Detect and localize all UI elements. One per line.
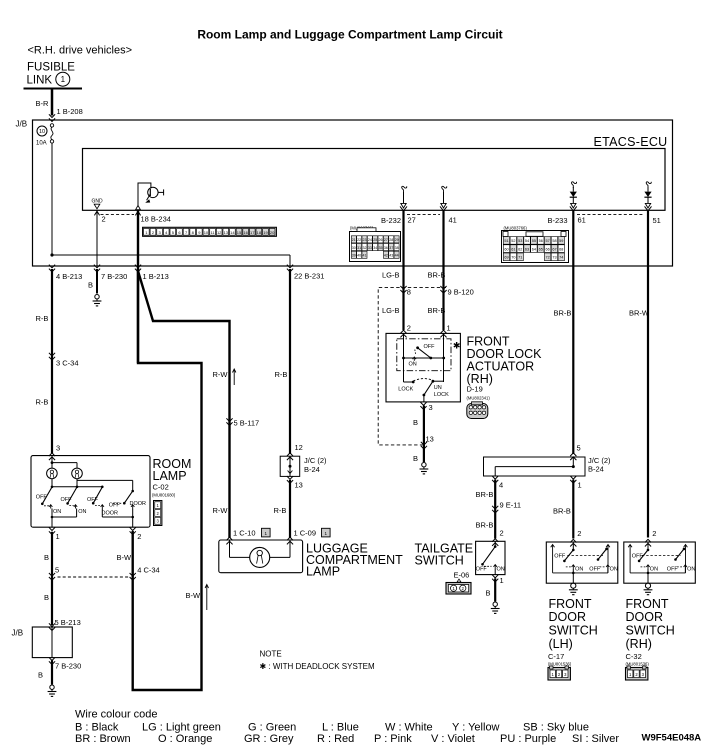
svg-text:LAMP: LAMP bbox=[153, 469, 187, 483]
svg-text:J/B: J/B bbox=[12, 629, 24, 638]
svg-text:B: B bbox=[88, 281, 93, 290]
wire ECU pin18 output bbox=[137, 210, 139, 363]
svg-text:C-32: C-32 bbox=[626, 652, 642, 661]
svg-text:2: 2 bbox=[102, 215, 106, 224]
svg-text:Room Lamp and Luggage Compartm: Room Lamp and Luggage Compartment Lamp C… bbox=[197, 28, 502, 42]
svg-text:51: 51 bbox=[504, 239, 508, 243]
svg-text:22: 22 bbox=[357, 238, 361, 242]
svg-text:GR : Grey: GR : Grey bbox=[244, 733, 294, 745]
svg-text:B: B bbox=[44, 593, 49, 602]
svg-text:OFF: OFF bbox=[667, 567, 679, 573]
tailgate switch pin 1 exit bbox=[492, 575, 498, 582]
svg-text:1 C-09: 1 C-09 bbox=[294, 529, 317, 538]
svg-text:BR-B: BR-B bbox=[476, 490, 494, 499]
luggage compartment lamp box bbox=[219, 540, 303, 573]
svg-text:2: 2 bbox=[652, 529, 656, 538]
svg-text:<R.H. drive vehicles>: <R.H. drive vehicles> bbox=[28, 45, 133, 57]
svg-text:BR-B: BR-B bbox=[428, 306, 446, 315]
front door switch (RH) internals bbox=[629, 545, 631, 573]
svg-text:B-W: B-W bbox=[117, 553, 133, 562]
room lamp switch 1 arm bbox=[42, 487, 52, 504]
svg-text:GND: GND bbox=[91, 198, 103, 204]
svg-text:LG-B: LG-B bbox=[382, 306, 400, 315]
svg-text:B: B bbox=[44, 553, 49, 562]
room lamp bus wiring bbox=[51, 479, 53, 487]
svg-text:68: 68 bbox=[559, 247, 563, 251]
svg-text:O : Orange: O : Orange bbox=[158, 733, 212, 745]
svg-text:SWITCH: SWITCH bbox=[415, 554, 464, 568]
svg-text:25: 25 bbox=[373, 238, 377, 242]
svg-text:13: 13 bbox=[224, 230, 229, 235]
room lamp internal feed wiring bbox=[51, 456, 53, 469]
svg-text:SWITCH: SWITCH bbox=[626, 624, 675, 638]
svg-text:64: 64 bbox=[532, 247, 536, 251]
svg-text:62: 62 bbox=[518, 247, 522, 251]
fuse 10 (10A) bbox=[37, 126, 47, 136]
room lamp switch 3 DOOR contact bbox=[95, 504, 101, 506]
tailgate switch internals bbox=[494, 541, 496, 546]
pin fork 61 bbox=[570, 206, 577, 210]
svg-text:52: 52 bbox=[511, 239, 515, 243]
svg-text:18 B-234: 18 B-234 bbox=[141, 215, 171, 224]
svg-text:8: 8 bbox=[407, 288, 411, 297]
svg-text:14: 14 bbox=[230, 230, 235, 235]
svg-text:R-W: R-W bbox=[213, 506, 229, 515]
ground room lamp circuit bbox=[50, 685, 54, 689]
exit connector 4 B-213 bbox=[49, 265, 55, 272]
svg-text:(LH): (LH) bbox=[549, 637, 573, 651]
svg-text:ON: ON bbox=[53, 509, 61, 515]
svg-text:7 B-230: 7 B-230 bbox=[55, 662, 81, 671]
svg-text:1: 1 bbox=[500, 576, 504, 585]
svg-text:44: 44 bbox=[395, 254, 399, 258]
svg-text:B : Black: B : Black bbox=[75, 722, 119, 734]
svg-text:OFF: OFF bbox=[36, 495, 48, 501]
svg-text:V : Violet: V : Violet bbox=[431, 733, 475, 745]
svg-text:DOOR: DOOR bbox=[626, 610, 664, 624]
svg-text:37: 37 bbox=[389, 246, 393, 250]
svg-text:G : Green: G : Green bbox=[248, 722, 296, 734]
front door switch (LH) pin 2 entry bbox=[570, 539, 576, 546]
svg-text:OFF: OFF bbox=[476, 567, 488, 573]
junction connector J/C(2) B-24 right bbox=[570, 453, 576, 460]
room lamp bulb 2 bbox=[72, 468, 83, 479]
room lamp box bbox=[31, 456, 150, 528]
wire pin27 LG-B down to actuator bbox=[402, 211, 404, 330]
dashed connector line pins 2-18 bbox=[101, 214, 135, 216]
svg-text:B-24: B-24 bbox=[304, 465, 320, 474]
junction dot power feed bbox=[50, 253, 53, 256]
svg-text:R-B: R-B bbox=[36, 398, 49, 407]
wire B to body ground (pin7) bbox=[96, 269, 98, 294]
junction block J/B lower box bbox=[49, 623, 55, 630]
svg-text:2: 2 bbox=[137, 532, 141, 541]
svg-text:R-B: R-B bbox=[274, 506, 287, 515]
room lamp switch 4 DOOR contact bbox=[132, 505, 134, 509]
room lamp bulb 1 bbox=[47, 468, 58, 479]
ground for 7 B-230 bbox=[95, 295, 99, 299]
svg-text:2: 2 bbox=[407, 324, 411, 333]
actuator deadlock dash-dot box bbox=[397, 339, 451, 371]
svg-text:60: 60 bbox=[504, 247, 508, 251]
svg-text:R-B: R-B bbox=[275, 370, 288, 379]
svg-text:FRONT: FRONT bbox=[626, 597, 669, 611]
svg-text:BR-B: BR-B bbox=[554, 309, 572, 318]
connector diagram D-19 oval bbox=[467, 404, 488, 419]
svg-text:10A: 10A bbox=[36, 141, 47, 147]
diode D2 above pin 51 bbox=[646, 182, 651, 188]
tailgate switch box bbox=[476, 541, 505, 574]
svg-text:23: 23 bbox=[363, 238, 367, 242]
wire R-B from J/C to luggage lamp bbox=[289, 480, 291, 538]
wire B from actuator to ground bbox=[423, 406, 425, 463]
luggage lamp internal wiring bbox=[229, 540, 231, 557]
svg-text:LOCK: LOCK bbox=[434, 392, 449, 398]
svg-text:(RH): (RH) bbox=[626, 637, 652, 651]
svg-text:5 B-213: 5 B-213 bbox=[55, 618, 81, 627]
svg-text:OFF: OFF bbox=[424, 344, 436, 350]
svg-text:73: 73 bbox=[552, 256, 556, 260]
actuator pin entries bbox=[400, 330, 406, 337]
svg-text:16: 16 bbox=[243, 230, 248, 235]
svg-text:P : Pink: P : Pink bbox=[374, 733, 412, 745]
svg-text:67: 67 bbox=[552, 247, 556, 251]
svg-text:L : Blue: L : Blue bbox=[322, 722, 359, 734]
svg-text:55: 55 bbox=[532, 239, 536, 243]
svg-text:DOOR: DOOR bbox=[102, 510, 119, 516]
svg-text:5: 5 bbox=[55, 566, 59, 575]
svg-text:FRONT: FRONT bbox=[549, 597, 592, 611]
svg-text:R : Red: R : Red bbox=[317, 733, 354, 745]
wire B-R main feed bbox=[51, 89, 54, 116]
svg-text:LOCK: LOCK bbox=[398, 386, 413, 392]
svg-text:DOOR: DOOR bbox=[549, 610, 587, 624]
svg-text:15: 15 bbox=[237, 230, 242, 235]
diode D1 above pin 61 bbox=[572, 182, 577, 188]
svg-text:ON: ON bbox=[610, 567, 618, 573]
pin fork 27 bbox=[400, 206, 407, 210]
front door switch (RH) box bbox=[624, 542, 696, 583]
svg-text:BR-W: BR-W bbox=[629, 309, 650, 318]
svg-text:72: 72 bbox=[545, 256, 549, 260]
wire B from room lamp pin 1 bbox=[51, 532, 53, 625]
svg-text:34: 34 bbox=[373, 246, 377, 250]
svg-text:D-19: D-19 bbox=[467, 385, 483, 394]
svg-text:W : White: W : White bbox=[385, 722, 433, 734]
svg-text:61: 61 bbox=[511, 247, 515, 251]
dashed door harness boundary bbox=[378, 288, 446, 445]
room lamp switch 1 ON contact bbox=[44, 505, 49, 507]
junction block J/B outer box bbox=[33, 120, 673, 266]
actuator internal switch OFF/ON bbox=[403, 333, 405, 358]
svg-text:1 C-10: 1 C-10 bbox=[233, 529, 256, 538]
actuator internal LOCK/UNLOCK switch bbox=[443, 333, 445, 382]
svg-text:57: 57 bbox=[545, 239, 549, 243]
svg-text:1: 1 bbox=[578, 481, 582, 490]
svg-text:22 B-231: 22 B-231 bbox=[294, 272, 324, 281]
svg-text:10: 10 bbox=[39, 129, 45, 135]
connector diagram C-17 bbox=[548, 668, 570, 681]
svg-text:J/B: J/B bbox=[16, 120, 28, 129]
svg-text:C-17: C-17 bbox=[548, 652, 564, 661]
svg-text:65: 65 bbox=[539, 247, 543, 251]
svg-text:ETACS-ECU: ETACS-ECU bbox=[594, 135, 668, 149]
svg-text:9 E-11: 9 E-11 bbox=[500, 501, 522, 510]
svg-text:3: 3 bbox=[429, 403, 433, 412]
connector diagram C-32 bbox=[626, 668, 648, 681]
svg-text:4 B-213: 4 B-213 bbox=[56, 272, 82, 281]
svg-text:ON: ON bbox=[575, 567, 583, 573]
pin fork 51 bbox=[645, 206, 652, 210]
pin 18 triangle on ECU edge bbox=[136, 205, 141, 209]
ground actuator bbox=[422, 463, 426, 467]
svg-text:5: 5 bbox=[577, 444, 581, 453]
svg-text:R-W: R-W bbox=[213, 370, 229, 379]
svg-text:✱ : WITH DEADLOCK SYSTEM: ✱ : WITH DEADLOCK SYSTEM bbox=[260, 662, 375, 671]
svg-text:4 C-34: 4 C-34 bbox=[137, 566, 160, 575]
svg-text:54: 54 bbox=[525, 239, 529, 243]
svg-text:17: 17 bbox=[250, 230, 255, 235]
svg-text:30: 30 bbox=[352, 246, 356, 250]
pin fork 41 bbox=[440, 206, 447, 210]
svg-text:63: 63 bbox=[525, 247, 529, 251]
svg-text:41: 41 bbox=[363, 254, 367, 258]
svg-text:ON: ON bbox=[497, 567, 505, 573]
svg-text:27: 27 bbox=[408, 216, 416, 225]
connector 1 B-208 bbox=[49, 114, 55, 121]
svg-text:40: 40 bbox=[357, 254, 361, 258]
wire power feed horizontal to pin22 bbox=[52, 254, 290, 256]
ETACS-ECU inner box bbox=[83, 149, 666, 211]
svg-text:1 B-213: 1 B-213 bbox=[143, 272, 169, 281]
svg-text:PU : Purple: PU : Purple bbox=[500, 733, 556, 745]
exit connector 22 B-231 bbox=[287, 265, 293, 272]
svg-text:32: 32 bbox=[363, 246, 367, 250]
room lamp bottom wiring bbox=[51, 509, 53, 518]
svg-text:B-24: B-24 bbox=[588, 465, 604, 474]
svg-text:2: 2 bbox=[500, 529, 504, 538]
wire R-B from 4 B-213 to room lamp pin 3 bbox=[51, 269, 53, 453]
svg-text:BR-B: BR-B bbox=[476, 521, 494, 530]
svg-text:12: 12 bbox=[217, 230, 222, 235]
svg-text:7 B-230: 7 B-230 bbox=[101, 272, 127, 281]
svg-text:W9F54E048A: W9F54E048A bbox=[642, 733, 701, 744]
svg-text:OFF: OFF bbox=[61, 497, 73, 503]
internal arrow symbol above pin 41 bbox=[442, 186, 447, 192]
svg-text:LG : Light green: LG : Light green bbox=[142, 722, 221, 734]
svg-text:39: 39 bbox=[352, 254, 356, 258]
svg-text:ON: ON bbox=[687, 567, 695, 573]
wire bold from 1 B-213 down right and down to room lamp pin2 loop bbox=[133, 269, 202, 690]
svg-text:1: 1 bbox=[447, 324, 451, 333]
wire fuse output down to junction bbox=[51, 143, 53, 255]
svg-text:Wire colour code: Wire colour code bbox=[75, 709, 158, 721]
svg-text:ON: ON bbox=[78, 509, 86, 515]
wire pin51 BR-W down to door switch RH bbox=[647, 211, 649, 538]
svg-text:74: 74 bbox=[559, 256, 563, 260]
svg-text:B: B bbox=[413, 418, 418, 427]
svg-text:18: 18 bbox=[257, 230, 262, 235]
svg-text:19: 19 bbox=[263, 230, 268, 235]
svg-text:ON: ON bbox=[409, 361, 417, 367]
svg-text:UN: UN bbox=[434, 385, 442, 391]
svg-text:OFF: OFF bbox=[589, 567, 601, 573]
transistor Q1 in ECU bbox=[138, 183, 151, 206]
svg-text:12: 12 bbox=[295, 443, 303, 452]
svg-text:BR : Brown: BR : Brown bbox=[75, 733, 131, 745]
svg-text:51: 51 bbox=[653, 216, 661, 225]
dashed connector line pins 61-51 bbox=[577, 214, 645, 216]
svg-text:(MU802341): (MU802341) bbox=[467, 396, 491, 401]
svg-text:10: 10 bbox=[204, 230, 209, 235]
front door switch (LH) box bbox=[546, 542, 618, 583]
wire R-B from 22 B-231 to J/C(2) bbox=[289, 269, 291, 454]
svg-text:LG-B: LG-B bbox=[382, 271, 400, 280]
internal arrow symbol above pin 27 bbox=[402, 186, 407, 192]
svg-text:SWITCH: SWITCH bbox=[549, 624, 598, 638]
svg-text:58: 58 bbox=[552, 239, 556, 243]
front door switch (LH) internals bbox=[552, 545, 554, 573]
connector 7 B-230 bbox=[49, 657, 55, 664]
svg-text:53: 53 bbox=[518, 239, 522, 243]
luggage lamp bulb bbox=[250, 547, 270, 567]
svg-text:(MU803766): (MU803766) bbox=[504, 226, 528, 231]
svg-text:27: 27 bbox=[384, 238, 388, 242]
wire ECU pin2 ground bbox=[96, 210, 98, 266]
dashed connector line pins 27-41 bbox=[407, 214, 440, 216]
room lamp pin exits 1 and 2 bbox=[49, 527, 55, 534]
svg-text:C-02: C-02 bbox=[153, 483, 169, 492]
svg-text:4: 4 bbox=[499, 481, 503, 490]
svg-text:FUSIBLE: FUSIBLE bbox=[27, 62, 75, 74]
svg-text:33: 33 bbox=[368, 246, 372, 250]
svg-text:Y : Yellow: Y : Yellow bbox=[452, 722, 500, 734]
exit connector 7 B-230 bbox=[94, 265, 100, 272]
svg-text:OFF: OFF bbox=[632, 554, 644, 560]
connector 8 on LG-B bbox=[400, 286, 406, 293]
svg-text:38: 38 bbox=[395, 246, 399, 250]
tailgate switch pin 2 entry bbox=[492, 539, 498, 546]
svg-text:5 B-117: 5 B-117 bbox=[234, 419, 260, 428]
svg-text:ON: ON bbox=[650, 567, 658, 573]
svg-text:OFF: OFF bbox=[554, 554, 566, 560]
connector diagram C-02 bbox=[154, 501, 162, 526]
svg-text:3 C-34: 3 C-34 bbox=[56, 359, 79, 368]
svg-text:59: 59 bbox=[559, 239, 563, 243]
connector 9 E-11 bbox=[492, 506, 498, 513]
svg-text:B: B bbox=[38, 671, 43, 680]
svg-text:13: 13 bbox=[295, 481, 303, 490]
svg-text:LINK: LINK bbox=[27, 75, 53, 87]
svg-text:61: 61 bbox=[578, 216, 586, 225]
room lamp pin 3 entry bbox=[49, 453, 55, 460]
svg-text:21: 21 bbox=[352, 238, 356, 242]
svg-text:56: 56 bbox=[539, 239, 543, 243]
svg-text:20: 20 bbox=[270, 230, 275, 235]
svg-text:OFF: OFF bbox=[87, 497, 99, 503]
svg-text:31: 31 bbox=[357, 246, 361, 250]
svg-text:28: 28 bbox=[389, 238, 393, 242]
svg-text:DOOR: DOOR bbox=[130, 501, 147, 507]
svg-text:24: 24 bbox=[368, 238, 372, 242]
svg-text:35: 35 bbox=[379, 246, 383, 250]
svg-text:1: 1 bbox=[56, 532, 60, 541]
svg-text:B-233: B-233 bbox=[548, 216, 568, 225]
fusible link bus bar bbox=[24, 88, 83, 90]
svg-text:42: 42 bbox=[384, 254, 388, 258]
svg-text:36: 36 bbox=[384, 246, 388, 250]
connector 5 B-117 bbox=[226, 418, 232, 425]
svg-text:SI : Silver: SI : Silver bbox=[572, 733, 619, 745]
connector 3 C-34 bbox=[49, 353, 55, 360]
svg-text:SB : Sky blue: SB : Sky blue bbox=[523, 722, 589, 734]
room lamp switch 2 arm bbox=[68, 487, 77, 503]
svg-text:J/C (2): J/C (2) bbox=[304, 456, 327, 465]
svg-text:2: 2 bbox=[577, 529, 581, 538]
connector diagram E-06 bbox=[446, 583, 471, 595]
svg-text:9 B-120: 9 B-120 bbox=[448, 288, 474, 297]
svg-text:E-06: E-06 bbox=[454, 571, 470, 580]
wire pin41 BR-B down to actuator bbox=[442, 211, 444, 330]
room lamp switch 3 arm bbox=[93, 487, 102, 503]
connector diagram B-234 pin row bbox=[143, 227, 277, 236]
wire B to ground bbox=[51, 661, 53, 685]
direction arrow up R-W bbox=[233, 370, 235, 386]
svg-text:3: 3 bbox=[56, 444, 60, 453]
exit connector 1 B-213 bbox=[135, 265, 141, 272]
svg-text:70: 70 bbox=[511, 256, 515, 260]
svg-text:B-W: B-W bbox=[186, 591, 202, 600]
svg-text:✱: ✱ bbox=[453, 341, 461, 351]
svg-text:LAMP: LAMP bbox=[306, 565, 340, 579]
svg-text:R-B: R-B bbox=[36, 314, 49, 323]
fusible link number 1 circle bbox=[56, 72, 70, 86]
wire pin61 BR-B down to J/C bbox=[572, 211, 574, 454]
svg-text:43: 43 bbox=[389, 254, 393, 258]
luggage lamp pin entries bbox=[226, 537, 232, 544]
wire BR-B from J/C pin 1 to door switch LH bbox=[572, 480, 574, 539]
svg-text:1: 1 bbox=[61, 75, 66, 84]
svg-text:B: B bbox=[486, 589, 491, 598]
junction connector J/C(2) B-24 left bbox=[287, 453, 293, 460]
svg-text:NOTE: NOTE bbox=[260, 650, 282, 659]
svg-text:29: 29 bbox=[395, 238, 399, 242]
room lamp switch 2 ON contact bbox=[69, 505, 74, 507]
wire BR-B from J/C pin 4 to tailgate switch bbox=[494, 480, 496, 539]
svg-text:69: 69 bbox=[504, 256, 508, 260]
svg-text:(MU801680): (MU801680) bbox=[152, 493, 176, 498]
svg-text:B: B bbox=[413, 454, 418, 463]
svg-text:41: 41 bbox=[449, 216, 457, 225]
svg-text:1 B-208: 1 B-208 bbox=[57, 107, 83, 116]
svg-text:26: 26 bbox=[379, 238, 383, 242]
svg-text:B-R: B-R bbox=[36, 99, 50, 108]
svg-text:66: 66 bbox=[545, 247, 549, 251]
front door switch (RH) pin 2 entry bbox=[645, 539, 651, 546]
room lamp switch 4 arm bbox=[124, 491, 132, 503]
svg-text:B-232: B-232 bbox=[381, 216, 401, 225]
front door lock actuator box bbox=[386, 333, 460, 402]
svg-text:71: 71 bbox=[518, 256, 522, 260]
ground tailgate switch bbox=[493, 602, 497, 606]
connector 9 B-120 on BR-B bbox=[440, 286, 446, 293]
svg-text:BR-B: BR-B bbox=[428, 271, 446, 280]
front door switch (RH) ground bbox=[645, 583, 650, 588]
wire B to ground bbox=[494, 578, 496, 601]
actuator pin 3 exit bbox=[420, 402, 426, 409]
svg-text:BR-B: BR-B bbox=[553, 507, 571, 516]
front door switch (LH) ground bbox=[571, 583, 576, 588]
